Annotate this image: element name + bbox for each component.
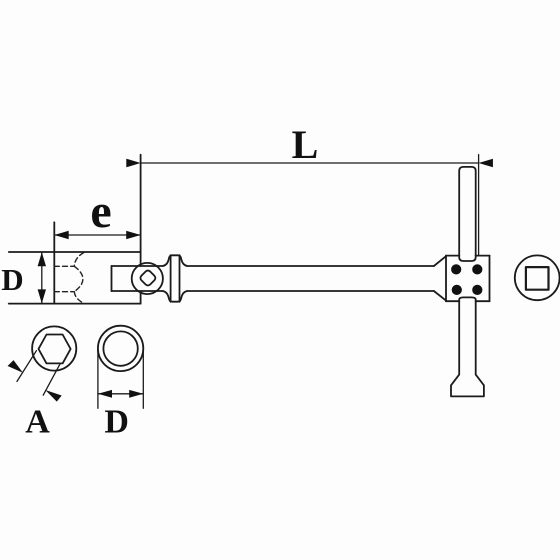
- u-joint knuckle circle: [132, 263, 163, 294]
- D view right extension line: [142, 348, 144, 408]
- svg-text:D: D: [1, 262, 23, 297]
- A arrow 2: [45, 390, 61, 402]
- dimension e right arrow: [126, 231, 140, 239]
- A leader line 1: [17, 351, 36, 382]
- A leader line 2: [43, 363, 60, 395]
- socket OD end view inner circle: [103, 331, 137, 365]
- u-joint collar band lines: [171, 255, 180, 302]
- A arrow 1: [8, 360, 23, 373]
- square drive end view square: [526, 267, 549, 290]
- dimension e line: [54, 234, 140, 236]
- D view right arrow: [129, 390, 143, 398]
- svg-text:L: L: [292, 122, 319, 167]
- T-bar lower section with foot: [451, 301, 484, 396]
- u-joint collar top outline: [163, 255, 187, 266]
- dimension L right arrow: [479, 159, 493, 168]
- socket hex hidden lines (dashed): [54, 253, 84, 304]
- socket body outline: [9, 155, 141, 304]
- u-joint collar bottom outline: [163, 291, 187, 302]
- dimension e left arrow: [54, 231, 68, 239]
- u-joint pin hole (rounded diamond): [139, 269, 157, 287]
- svg-text:A: A: [25, 404, 50, 441]
- block hole bottom-right: [472, 285, 482, 295]
- dimension L left arrow: [126, 159, 140, 168]
- dimension D (left) vertical line: [41, 252, 43, 304]
- shaft taper to block: [434, 256, 446, 300]
- dimension D down arrow: [38, 289, 46, 303]
- square drive end view circle: [515, 255, 560, 300]
- block hole top-right: [472, 264, 482, 274]
- hex end view hexagon: [39, 335, 71, 364]
- T-bar upper section: [459, 167, 476, 256]
- svg-text:e: e: [90, 185, 111, 238]
- u-joint yoke tongue: [112, 266, 163, 291]
- dimension L right extension line: [478, 155, 480, 256]
- hex end view circle (A view): [32, 326, 76, 370]
- D view dimension line: [98, 393, 143, 395]
- svg-text:D: D: [104, 404, 129, 441]
- T-bar entry cap in block top: [459, 256, 476, 261]
- dimension L line: [141, 162, 479, 164]
- socket OD end view outer circle (D view): [98, 326, 143, 371]
- T-handle block: [446, 256, 490, 302]
- dimension D up arrow: [38, 252, 46, 266]
- D view left arrow: [98, 390, 112, 398]
- block hole bottom-left: [452, 285, 462, 295]
- shaft: [187, 266, 434, 291]
- T-bar exit cap in block bottom: [459, 297, 476, 301]
- block hole top-left: [451, 264, 461, 274]
- D view left extension line: [97, 348, 99, 408]
